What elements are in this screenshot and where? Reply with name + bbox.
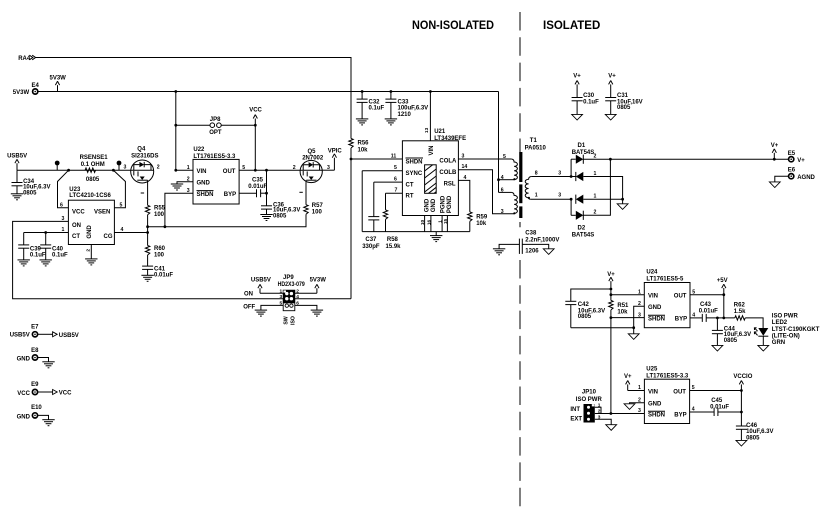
svg-text:USB5V: USB5V: [251, 278, 271, 284]
svg-text:0.01uF: 0.01uF: [248, 184, 267, 190]
svg-text:R57: R57: [312, 203, 324, 209]
svg-text:6: 6: [296, 301, 299, 307]
svg-text:1: 1: [638, 385, 641, 391]
svg-text:C46: C46: [746, 423, 758, 429]
svg-text:C41: C41: [154, 267, 166, 273]
svg-text:PGND: PGND: [441, 195, 447, 213]
svg-text:SW: SW: [284, 316, 290, 324]
svg-text:C32: C32: [369, 99, 381, 105]
svg-text:11: 11: [391, 153, 397, 159]
svg-text:OUT: OUT: [673, 389, 686, 395]
svg-text:U22: U22: [193, 147, 205, 153]
svg-text:SYNC: SYNC: [406, 171, 423, 177]
svg-text:E8: E8: [31, 348, 39, 354]
svg-text:U21: U21: [434, 129, 446, 135]
svg-text:ISO: ISO: [290, 316, 296, 325]
svg-text:SHDN: SHDN: [197, 192, 214, 198]
svg-text:VCC: VCC: [249, 107, 262, 113]
svg-text:E5: E5: [788, 151, 796, 157]
svg-text:JP10: JP10: [582, 390, 597, 396]
svg-text:U24: U24: [646, 270, 658, 276]
svg-text:PA0510: PA0510: [525, 146, 547, 152]
svg-text:1: 1: [280, 289, 283, 295]
svg-text:5V3W: 5V3W: [13, 90, 30, 96]
svg-text:3: 3: [558, 193, 561, 199]
svg-text:V+: V+: [797, 158, 805, 164]
svg-text:+5V: +5V: [717, 278, 728, 284]
svg-text:EXT: EXT: [570, 417, 582, 423]
svg-text:5: 5: [120, 203, 123, 209]
svg-text:1210: 1210: [398, 112, 412, 118]
svg-text:0805: 0805: [23, 190, 37, 196]
svg-text:16: 16: [426, 220, 432, 226]
svg-text:2.2nF,1000V: 2.2nF,1000V: [525, 237, 559, 243]
svg-text:6: 6: [501, 188, 504, 194]
svg-text:3: 3: [598, 414, 601, 420]
svg-text:0.1uF: 0.1uF: [52, 252, 68, 258]
svg-text:2N7002: 2N7002: [302, 156, 324, 162]
svg-text:0805: 0805: [746, 436, 760, 442]
svg-text:R62: R62: [734, 303, 746, 309]
svg-text:Q5: Q5: [308, 149, 317, 155]
svg-text:3: 3: [187, 188, 190, 194]
svg-text:2: 2: [157, 164, 160, 170]
svg-text:ISO PWR: ISO PWR: [576, 397, 603, 403]
svg-text:VCCIO: VCCIO: [733, 374, 752, 380]
svg-text:5: 5: [692, 289, 695, 295]
svg-text:4: 4: [296, 294, 299, 300]
svg-text:2: 2: [187, 177, 190, 183]
svg-text:V+: V+: [624, 374, 632, 380]
svg-text:OFF: OFF: [243, 305, 255, 311]
svg-text:BYP: BYP: [675, 317, 687, 323]
svg-text:5V3W: 5V3W: [50, 76, 67, 82]
svg-text:13: 13: [424, 127, 430, 133]
svg-text:SHDN: SHDN: [648, 413, 665, 419]
svg-text:330pF: 330pF: [362, 244, 380, 250]
svg-text:2: 2: [638, 301, 641, 307]
svg-text:U25: U25: [646, 367, 658, 373]
svg-text:R60: R60: [154, 246, 166, 252]
svg-text:2: 2: [594, 154, 597, 160]
svg-text:LT1761ES5-3.3: LT1761ES5-3.3: [193, 154, 236, 160]
svg-text:USB5V: USB5V: [7, 154, 27, 160]
svg-text:10k: 10k: [476, 221, 487, 227]
svg-text:5: 5: [280, 301, 283, 307]
svg-text:HD2X3-079: HD2X3-079: [278, 282, 306, 288]
svg-text:4: 4: [464, 175, 467, 181]
svg-text:RT: RT: [406, 194, 414, 200]
svg-text:E6: E6: [788, 168, 796, 174]
svg-text:2: 2: [594, 210, 597, 216]
svg-text:1: 1: [598, 403, 601, 409]
svg-text:USB5V: USB5V: [10, 333, 30, 339]
svg-text:10uF,6.3V: 10uF,6.3V: [746, 429, 773, 435]
svg-text:LT1761ES5-5: LT1761ES5-5: [646, 277, 684, 283]
svg-text:R55: R55: [154, 206, 166, 212]
svg-text:LT3439EFE: LT3439EFE: [434, 136, 466, 142]
svg-text:OUT: OUT: [674, 293, 687, 299]
svg-text:R51: R51: [617, 303, 629, 309]
svg-text:VIN: VIN: [429, 145, 435, 155]
svg-text:8: 8: [535, 171, 538, 177]
svg-text:3: 3: [501, 209, 504, 215]
svg-text:SHDN: SHDN: [648, 317, 665, 323]
svg-text:ON: ON: [72, 223, 81, 229]
svg-text:5: 5: [394, 165, 397, 171]
svg-text:2: 2: [85, 249, 91, 252]
svg-text:VIN: VIN: [197, 169, 207, 175]
svg-text:VCC: VCC: [17, 391, 30, 397]
svg-text:GND: GND: [648, 305, 662, 311]
svg-text:V+: V+: [608, 74, 616, 80]
svg-text:1: 1: [187, 165, 190, 171]
svg-text:PGND: PGND: [447, 195, 453, 213]
svg-text:4: 4: [692, 407, 695, 413]
svg-text:LTC4210-1CS6: LTC4210-1CS6: [69, 193, 111, 199]
svg-text:1: 1: [594, 171, 597, 177]
svg-text:GND: GND: [648, 402, 662, 408]
svg-text:2: 2: [638, 397, 641, 403]
svg-text:GRN: GRN: [772, 340, 785, 346]
svg-text:BYP: BYP: [674, 413, 686, 419]
svg-text:ISO PWR: ISO PWR: [772, 314, 799, 320]
svg-text:3: 3: [638, 312, 641, 318]
svg-text:0805: 0805: [578, 314, 592, 320]
svg-text:14: 14: [462, 164, 468, 170]
svg-text:R58: R58: [387, 237, 399, 243]
svg-text:COLB: COLB: [439, 170, 457, 176]
svg-text:100uF,6.3V: 100uF,6.3V: [398, 106, 429, 112]
svg-text:0.1uF: 0.1uF: [30, 252, 46, 258]
svg-text:C43: C43: [700, 302, 712, 308]
svg-text:ON: ON: [244, 292, 253, 298]
svg-text:1206: 1206: [525, 248, 539, 254]
svg-text:1: 1: [535, 193, 538, 199]
svg-text:VCC: VCC: [72, 210, 85, 216]
svg-text:USB5V: USB5V: [59, 333, 79, 339]
svg-text:7: 7: [395, 188, 398, 194]
svg-text:1: 1: [594, 194, 597, 200]
svg-text:E7: E7: [31, 324, 39, 330]
svg-text:VPIC: VPIC: [328, 148, 343, 154]
svg-text:LED2: LED2: [772, 320, 788, 326]
svg-text:AGND: AGND: [797, 175, 815, 181]
svg-text:V+: V+: [573, 74, 581, 80]
svg-text:0.01uF: 0.01uF: [154, 273, 173, 279]
svg-text:SHDN: SHDN: [406, 160, 423, 166]
svg-text:C37: C37: [365, 237, 377, 243]
svg-text:5: 5: [503, 154, 506, 160]
svg-text:E9: E9: [31, 382, 39, 388]
svg-text:C38: C38: [525, 231, 537, 237]
svg-text:4: 4: [501, 175, 504, 181]
svg-text:GND: GND: [17, 356, 31, 362]
svg-text:2: 2: [598, 408, 601, 414]
svg-text:T1: T1: [530, 138, 538, 144]
svg-text:2: 2: [293, 165, 296, 171]
svg-text:GND: GND: [431, 198, 437, 212]
svg-text:0.1uF: 0.1uF: [583, 99, 599, 105]
svg-text:0.01uF: 0.01uF: [710, 405, 729, 411]
svg-text:VCC: VCC: [59, 391, 72, 397]
svg-text:0805: 0805: [273, 213, 287, 219]
svg-text:(LITE-ON): (LITE-ON): [772, 334, 800, 340]
svg-text:0805: 0805: [86, 177, 100, 183]
svg-text:CT: CT: [406, 183, 414, 189]
svg-text:0.1uF: 0.1uF: [369, 106, 385, 112]
svg-text:3: 3: [462, 153, 465, 159]
svg-text:RA4: RA4: [18, 56, 31, 62]
svg-text:VIN: VIN: [648, 293, 658, 299]
svg-text:10k: 10k: [358, 147, 369, 153]
svg-text:JP8: JP8: [210, 117, 221, 123]
svg-text:GND: GND: [425, 198, 431, 212]
svg-text:VIN: VIN: [648, 389, 658, 395]
svg-text:C30: C30: [583, 93, 595, 99]
svg-text:3: 3: [558, 171, 561, 177]
svg-text:C33: C33: [398, 99, 410, 105]
svg-text:C31: C31: [617, 93, 629, 99]
svg-text:BYP: BYP: [224, 192, 236, 198]
svg-text:CG: CG: [104, 234, 113, 240]
svg-text:Q4: Q4: [137, 147, 146, 153]
svg-text:RSL: RSL: [444, 181, 456, 187]
svg-text:10: 10: [420, 220, 426, 226]
svg-text:C45: C45: [711, 398, 723, 404]
svg-text:100: 100: [154, 252, 165, 258]
svg-text:5: 5: [692, 385, 695, 391]
svg-text:100: 100: [312, 209, 323, 215]
svg-text:2: 2: [296, 289, 299, 295]
svg-text:SI2316DS: SI2316DS: [131, 153, 158, 159]
svg-text:VSEN: VSEN: [94, 210, 110, 216]
svg-text:RSENSE1: RSENSE1: [80, 155, 109, 161]
svg-text:15.9k: 15.9k: [386, 244, 402, 250]
svg-text:V+: V+: [771, 143, 779, 149]
svg-text:CT: CT: [72, 234, 80, 240]
svg-text:6: 6: [60, 203, 63, 209]
svg-text:100: 100: [154, 212, 165, 218]
svg-text:GND: GND: [197, 180, 211, 186]
svg-text:D1: D1: [578, 143, 586, 149]
svg-text:ISOLATED: ISOLATED: [543, 20, 600, 32]
svg-text:INT: INT: [570, 407, 580, 413]
svg-text:4: 4: [692, 313, 695, 319]
svg-text:15: 15: [443, 219, 449, 225]
svg-text:10k: 10k: [617, 309, 628, 315]
svg-text:1: 1: [638, 289, 641, 295]
svg-text:6: 6: [394, 177, 397, 183]
svg-text:D2: D2: [578, 226, 586, 232]
svg-text:3: 3: [638, 408, 641, 414]
svg-text:5: 5: [242, 165, 245, 171]
svg-text:OUT: OUT: [223, 169, 236, 175]
svg-text:C35: C35: [252, 178, 264, 184]
svg-text:C42: C42: [578, 302, 590, 308]
svg-text:3: 3: [280, 294, 283, 300]
svg-text:COLA: COLA: [439, 159, 457, 165]
svg-text:GND: GND: [17, 414, 31, 420]
svg-text:E10: E10: [31, 405, 42, 411]
svg-text:OPT: OPT: [209, 130, 222, 136]
svg-text:1.5k: 1.5k: [734, 309, 746, 315]
svg-text:GND: GND: [87, 225, 93, 239]
svg-text:0805: 0805: [724, 338, 738, 344]
svg-text:1: 1: [438, 220, 444, 223]
svg-text:0805: 0805: [617, 105, 631, 111]
svg-text:NON-ISOLATED: NON-ISOLATED: [412, 20, 494, 32]
svg-text:LTST-C190KGKT: LTST-C190KGKT: [772, 327, 820, 333]
svg-text:5V3W: 5V3W: [310, 278, 327, 284]
svg-text:LT1761ES5-3.3: LT1761ES5-3.3: [646, 373, 689, 379]
svg-text:U23: U23: [69, 187, 81, 193]
svg-text:JP9: JP9: [283, 275, 294, 281]
svg-text:BAT54S: BAT54S: [572, 232, 595, 238]
svg-text:3: 3: [124, 164, 127, 170]
svg-text:0.01uF: 0.01uF: [699, 309, 718, 315]
svg-text:R59: R59: [476, 215, 488, 221]
svg-text:R56: R56: [358, 140, 370, 146]
